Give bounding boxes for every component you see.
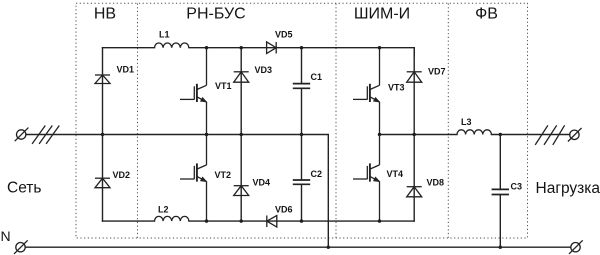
svg-text:ШИМ-И: ШИМ-И [354, 6, 410, 23]
output terminal phase [568, 128, 582, 142]
node A junction input [101, 133, 104, 136]
diode VD2 [95, 178, 110, 188]
junction VT2 emitter [205, 219, 208, 222]
wire L3 to output [491, 134, 569, 136]
junction VD3 top [240, 46, 243, 49]
svg-text:VD5: VD5 [275, 30, 293, 40]
output hatch marks [535, 125, 564, 145]
dashed enclosure box [76, 3, 528, 238]
junction C2 bottom [300, 219, 303, 222]
junction VT3 collector [378, 46, 381, 49]
transistor VT2 [180, 135, 207, 222]
diode VD4 [234, 186, 249, 196]
capacitor C2 [293, 135, 310, 222]
input terminal phase [15, 128, 29, 142]
svg-text:VD4: VD4 [253, 178, 271, 188]
wire top rail left [103, 47, 155, 49]
inductor L1 [155, 43, 189, 48]
svg-text:НВ: НВ [94, 6, 116, 23]
junction VT4 emitter [378, 219, 381, 222]
svg-text:L2: L2 [158, 204, 169, 214]
transistor VT1 [180, 48, 207, 135]
diode VD8 [407, 187, 422, 197]
svg-text:VT1: VT1 [215, 81, 232, 91]
wire mid rail right [380, 134, 458, 136]
svg-text:VD6: VD6 [275, 204, 293, 214]
svg-text:Нагрузка: Нагрузка [536, 180, 600, 197]
diode VD7 wire [413, 48, 415, 135]
wire N bus [25, 246, 571, 248]
terminal N left [14, 240, 28, 254]
svg-text:C3: C3 [511, 181, 523, 191]
svg-text:VD3: VD3 [255, 65, 273, 75]
svg-text:VT2: VT2 [215, 170, 232, 180]
junction C3 bottom [499, 246, 502, 249]
junction C1-C2 mid [300, 133, 303, 136]
junction VT1 emitter [205, 133, 208, 136]
svg-text:VD1: VD1 [117, 64, 135, 74]
diode VD3 [234, 72, 249, 82]
junction VD7 bottom [413, 133, 416, 136]
inductor L3 [457, 130, 491, 135]
junction C1 top [300, 46, 303, 49]
diode VD7 [407, 72, 422, 82]
svg-text:Сеть: Сеть [7, 180, 41, 197]
wire mid rail left [103, 135, 329, 248]
diode VD1 [95, 75, 110, 84]
transistor VT4 [353, 135, 380, 222]
svg-text:C2: C2 [311, 169, 323, 179]
diode VD6 [267, 216, 277, 228]
svg-text:C1: C1 [311, 72, 323, 82]
junction VT3 emitter [378, 133, 381, 136]
capacitor C1 [293, 48, 310, 135]
junction VD3-VD4 mid [240, 133, 243, 136]
diode VD3 wire [240, 48, 242, 135]
svg-text:VD7: VD7 [428, 66, 446, 76]
svg-text:VT3: VT3 [388, 83, 405, 93]
inductor L2 [155, 216, 189, 221]
section divider ШИМ-И / ФВ [447, 4, 449, 239]
input hatch marks [32, 126, 59, 144]
capacitor C3 [492, 135, 509, 248]
section divider РН-БУС / ШИМ-И [335, 4, 337, 239]
transistor VT3 [353, 48, 380, 135]
junction VD4 bottom [240, 219, 243, 222]
svg-text:N: N [1, 228, 11, 244]
wire input to node A [26, 134, 103, 136]
junction C3 top [499, 133, 502, 136]
svg-text:ФВ: ФВ [475, 6, 498, 23]
svg-text:РН-БУС: РН-БУС [186, 6, 245, 23]
svg-text:L3: L3 [461, 117, 472, 127]
junction N drop on N bus [327, 246, 330, 249]
section divider НВ / РН-БУС [137, 4, 139, 239]
diode VD5 [267, 42, 277, 54]
junction VT1 collector [205, 46, 208, 49]
wire VD1-VD2 branch vertical [102, 48, 104, 221]
svg-text:VT4: VT4 [387, 169, 404, 179]
wire bottom rail right of L2 [189, 220, 414, 222]
svg-text:VD2: VD2 [113, 170, 131, 180]
wire top rail middle [189, 48, 414, 56]
diode VD8 wire [413, 135, 415, 222]
svg-text:VD8: VD8 [427, 177, 445, 187]
wire bottom rail [103, 220, 155, 222]
terminal N right [569, 240, 583, 254]
diode VD4 wire [240, 135, 242, 222]
svg-text:L1: L1 [159, 30, 170, 40]
